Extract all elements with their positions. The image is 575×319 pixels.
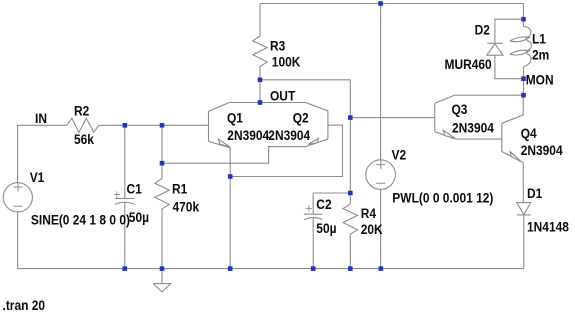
transistor Q2 bbox=[327, 111, 329, 140]
svg-text:Q2: Q2 bbox=[293, 110, 309, 126]
transistor Q1 bbox=[208, 111, 210, 141]
wire main input rail bbox=[18, 124, 209, 126]
svg-text:L1: L1 bbox=[532, 30, 546, 46]
svg-text:Q1: Q1 bbox=[227, 110, 243, 126]
wire bottom rail bbox=[18, 268, 524, 270]
wire V1 top lead bbox=[17, 125, 19, 182]
voltage source V1 bbox=[3, 183, 32, 212]
svg-text:MUR460: MUR460 bbox=[445, 56, 492, 72]
svg-text:R4: R4 bbox=[361, 205, 377, 221]
wire C2 bottom lead bbox=[312, 218, 314, 268]
resistor R3 bbox=[253, 36, 267, 80]
ground bbox=[153, 269, 171, 292]
svg-text:2N3904: 2N3904 bbox=[521, 142, 564, 158]
wire tail to rail bbox=[229, 177, 231, 269]
wire C1 top lead bbox=[124, 125, 126, 198]
svg-text:50µ: 50µ bbox=[129, 209, 149, 225]
wire top right vertical bbox=[523, 4, 525, 20]
svg-text:D1: D1 bbox=[527, 185, 542, 201]
node C1 bottom bbox=[123, 266, 128, 271]
svg-text:C1: C1 bbox=[127, 181, 142, 197]
node Q1 emitter junction bbox=[228, 174, 233, 179]
svg-text:20K: 20K bbox=[361, 221, 383, 237]
node C2 bottom bbox=[311, 266, 316, 271]
svg-text:Q4: Q4 bbox=[521, 125, 538, 141]
wire Q2 emitter link bbox=[162, 147, 306, 164]
wire D2 bottom lead bbox=[495, 55, 524, 78]
wire R3bottom to center column bbox=[260, 79, 350, 81]
svg-text:D2: D2 bbox=[475, 21, 490, 37]
wire Q4 emitter vertical bbox=[522, 163, 524, 203]
capacitor C1 bbox=[115, 198, 135, 200]
svg-text:470k: 470k bbox=[173, 199, 200, 215]
wire OUT collector rail bbox=[230, 102, 306, 104]
capacitor C2 bbox=[304, 213, 322, 215]
svg-text:2N3904: 2N3904 bbox=[227, 127, 270, 143]
svg-text:.tran 20: .tran 20 bbox=[3, 297, 46, 313]
svg-text:R1: R1 bbox=[172, 181, 187, 197]
wire Q3 emitter to Q4 base bbox=[456, 138, 502, 140]
wire D2 top link bbox=[495, 19, 524, 43]
svg-text:2N3904: 2N3904 bbox=[452, 120, 495, 136]
node R4 bottom bbox=[348, 266, 353, 271]
wire Q1 emitter vertical bbox=[229, 148, 231, 177]
node R1 mid junction (Q2 emitter link) bbox=[160, 161, 165, 166]
svg-text:50µ: 50µ bbox=[316, 220, 336, 236]
wire V2 top lead bbox=[380, 4, 382, 160]
wire R3bottom down to OUT bbox=[259, 80, 261, 103]
node tail bottom bbox=[228, 266, 233, 271]
node C2 link junction bbox=[348, 191, 353, 196]
svg-text:Q3: Q3 bbox=[452, 101, 468, 117]
wire R1 bottom lead bbox=[161, 212, 163, 268]
resistor R2 bbox=[67, 118, 99, 132]
node OUT junction bbox=[258, 100, 263, 105]
svg-text:2N3904: 2N3904 bbox=[268, 127, 311, 143]
wire Q1 emitter to Q2 base bbox=[230, 125, 342, 176]
wire R4 bottom lead bbox=[349, 235, 351, 268]
svg-text:R3: R3 bbox=[270, 38, 285, 54]
transistor Q4 bbox=[501, 123, 503, 151]
wire C2 link bbox=[313, 193, 350, 214]
node R1 top junction bbox=[160, 123, 165, 128]
resistor R4 bbox=[343, 204, 357, 236]
resistor R1 bbox=[155, 179, 169, 213]
node V2 bottom bbox=[379, 266, 384, 271]
wire R1 upper lead bbox=[161, 125, 163, 178]
node V2 top junction bbox=[378, 1, 383, 6]
wire top rail bbox=[260, 3, 524, 5]
svg-text:56k: 56k bbox=[74, 131, 95, 147]
node C1 top junction bbox=[123, 123, 128, 128]
wire D1 bottom lead bbox=[523, 215, 525, 269]
node MON junction bbox=[521, 76, 526, 81]
svg-text:SINE(0 24 1 8 0 0): SINE(0 24 1 8 0 0) bbox=[31, 212, 130, 228]
diode D1 bbox=[517, 203, 531, 215]
wire Q3 collector rail bbox=[454, 94, 523, 96]
svg-text:IN: IN bbox=[35, 110, 47, 126]
wire V2 bottom lead bbox=[380, 189, 382, 268]
svg-text:100K: 100K bbox=[272, 54, 301, 70]
inductor L1 bbox=[523, 19, 525, 26]
svg-text:C2: C2 bbox=[316, 196, 331, 212]
svg-text:R2: R2 bbox=[74, 103, 89, 119]
wire to Q3 base bbox=[350, 117, 435, 119]
svg-text:PWL(0 0 0.001 12): PWL(0 0 0.001 12) bbox=[392, 190, 493, 206]
svg-text:OUT: OUT bbox=[270, 87, 295, 103]
transistor Q3 bbox=[434, 103, 436, 131]
wire center column bbox=[349, 80, 351, 204]
node R1 bottom / ground bbox=[160, 266, 165, 271]
wire V1 bottom lead bbox=[17, 212, 19, 269]
voltage source V2 bbox=[366, 160, 396, 190]
wire C1 bottom lead bbox=[124, 203, 126, 269]
diode D2 bbox=[487, 42, 502, 44]
node R3 bottom junction bbox=[258, 78, 263, 83]
wire Q4 collector vertical bbox=[522, 95, 524, 115]
svg-text:V2: V2 bbox=[392, 147, 407, 163]
wire MON down bbox=[523, 79, 525, 96]
svg-text:V1: V1 bbox=[30, 169, 45, 185]
wire R3 top lead from top rail bbox=[259, 4, 261, 37]
node Q3 collector junction bbox=[521, 93, 526, 98]
svg-text:1N4148: 1N4148 bbox=[527, 219, 569, 235]
node L1 top junction bbox=[521, 17, 526, 22]
svg-text:MON: MON bbox=[526, 71, 554, 87]
svg-text:2m: 2m bbox=[532, 47, 549, 63]
node Q3 base junction bbox=[348, 115, 353, 120]
